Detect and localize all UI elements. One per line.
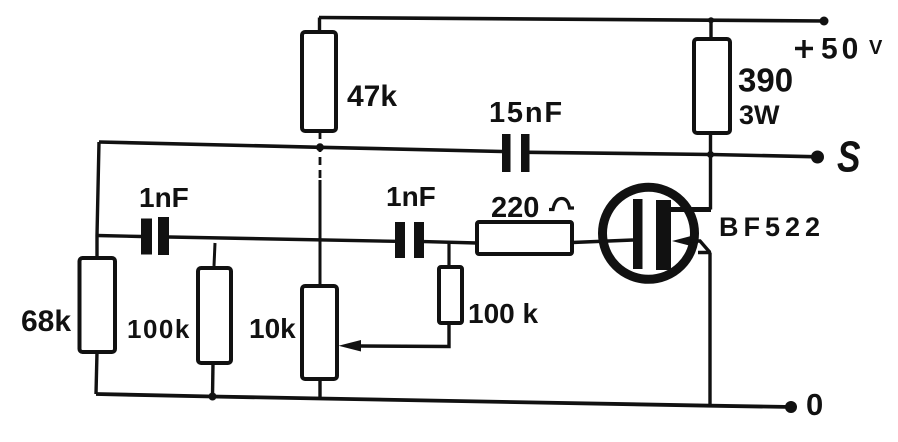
svg-text:BF522: BF522 <box>719 212 825 242</box>
node junction 100k / 0 rail <box>209 393 217 401</box>
wire 68k bottom to 0 rail <box>96 352 97 394</box>
svg-text:0: 0 <box>806 387 823 422</box>
resistor 100k (right) <box>439 267 462 323</box>
resistor 220 <box>477 222 572 254</box>
wire stub above 100k left <box>214 243 215 266</box>
node junction drain / S rail <box>707 151 714 158</box>
node junction 47k / S rail <box>316 143 324 151</box>
wire S rail left segment <box>99 142 502 152</box>
capacitor 1nF (left) <box>141 217 169 255</box>
node +50V rail end dot <box>820 17 829 26</box>
wire drain vertical to 390 / S rail <box>709 133 712 210</box>
resistor 68k <box>80 258 116 352</box>
resistor 10k potentiometer <box>302 286 337 379</box>
svg-text:390: 390 <box>738 62 793 99</box>
wire gate lead to transistor <box>572 240 633 243</box>
resistor 100k (left) <box>198 268 231 363</box>
wire stub junction to 100k right <box>447 242 450 267</box>
svg-text:100 k: 100 k <box>468 298 538 329</box>
power label +50V <box>795 33 883 66</box>
capacitor 15nF <box>502 134 530 172</box>
resistor 390 3W <box>694 20 730 134</box>
wire top +50V rail <box>319 18 827 22</box>
svg-text:S: S <box>837 133 861 182</box>
wire 100k bottom <box>211 363 215 397</box>
node S terminal dot <box>811 151 824 164</box>
svg-text:50: 50 <box>821 33 862 66</box>
wire gate rail segment 1 <box>97 236 141 237</box>
svg-text:15nF: 15nF <box>489 97 564 129</box>
svg-text:V: V <box>869 37 883 59</box>
wire 10k bottom <box>318 379 321 399</box>
wire source lead <box>689 241 710 253</box>
wire left vertical <box>97 142 99 258</box>
svg-text:1nF: 1nF <box>386 181 436 212</box>
wire S rail right segment <box>529 152 818 157</box>
capacitor 1nF (middle) <box>395 222 424 258</box>
wire drain lead <box>671 207 711 212</box>
svg-text:10k: 10k <box>249 313 296 344</box>
transistor BF522 envelope circle <box>603 187 695 279</box>
svg-text:100k: 100k <box>127 314 191 344</box>
transistor source arrowhead <box>672 236 691 246</box>
wire 47k bottom to 10k top (dashed scan look) <box>319 131 322 286</box>
transistor channel bar <box>656 200 671 270</box>
node junction 390 / top rail <box>708 17 714 23</box>
svg-text:220: 220 <box>491 192 539 224</box>
wire gate rail segment 3 <box>424 242 477 243</box>
svg-text:47k: 47k <box>347 80 397 113</box>
svg-text:1nF: 1nF <box>139 182 189 213</box>
label 220 ohm <box>491 192 574 224</box>
svg-text:68k: 68k <box>21 305 71 338</box>
wiper arrowhead into 10k <box>339 340 362 352</box>
wire gate rail segment 2 <box>169 237 395 241</box>
node 0 terminal dot <box>785 401 797 413</box>
wire bottom 0 rail <box>96 394 792 407</box>
resistor 47k <box>302 18 336 132</box>
wire source vertical to 0 rail <box>698 253 711 406</box>
transistor gate bar <box>633 199 643 269</box>
wire wiper from 100k right <box>360 323 449 347</box>
svg-text:3W: 3W <box>739 100 780 130</box>
